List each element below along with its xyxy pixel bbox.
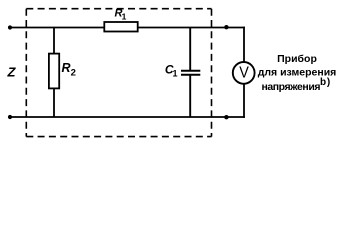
svg-text:V: V [239,64,249,81]
resistor R2 [49,54,59,89]
wire voltmeter branch [243,27,245,118]
wire R2 branch [53,28,55,118]
svg-text:1: 1 [173,68,178,78]
dashed equivalent-circuit boundary box top edge [26,8,211,10]
voltmeter U1 circle [233,62,255,84]
svg-text:b): b) [320,77,331,88]
node terminal bottom-left [8,115,12,119]
wire bottom rail [10,116,245,118]
node terminal top-left [8,25,12,29]
node junction bottom-right [224,115,228,119]
wire C1 branch bottom [189,75,191,117]
svg-text:Z: Z [7,65,17,80]
svg-text:2: 2 [71,68,76,79]
resistor R1 [104,22,137,32]
svg-text:Прибор: Прибор [277,53,317,65]
wire C1 branch top [189,28,191,71]
node junction top-right [224,25,228,29]
dashed equivalent-circuit boundary box left edge [25,9,27,137]
capacitor C1 plates [181,71,200,75]
dashed equivalent-circuit boundary box bottom edge [26,136,211,138]
svg-text:R: R [62,61,71,75]
svg-text:1: 1 [122,11,127,21]
wire top rail [10,27,245,29]
dashed equivalent-circuit boundary box right edge [211,9,213,137]
svg-text:напряжения: напряжения [262,81,321,93]
